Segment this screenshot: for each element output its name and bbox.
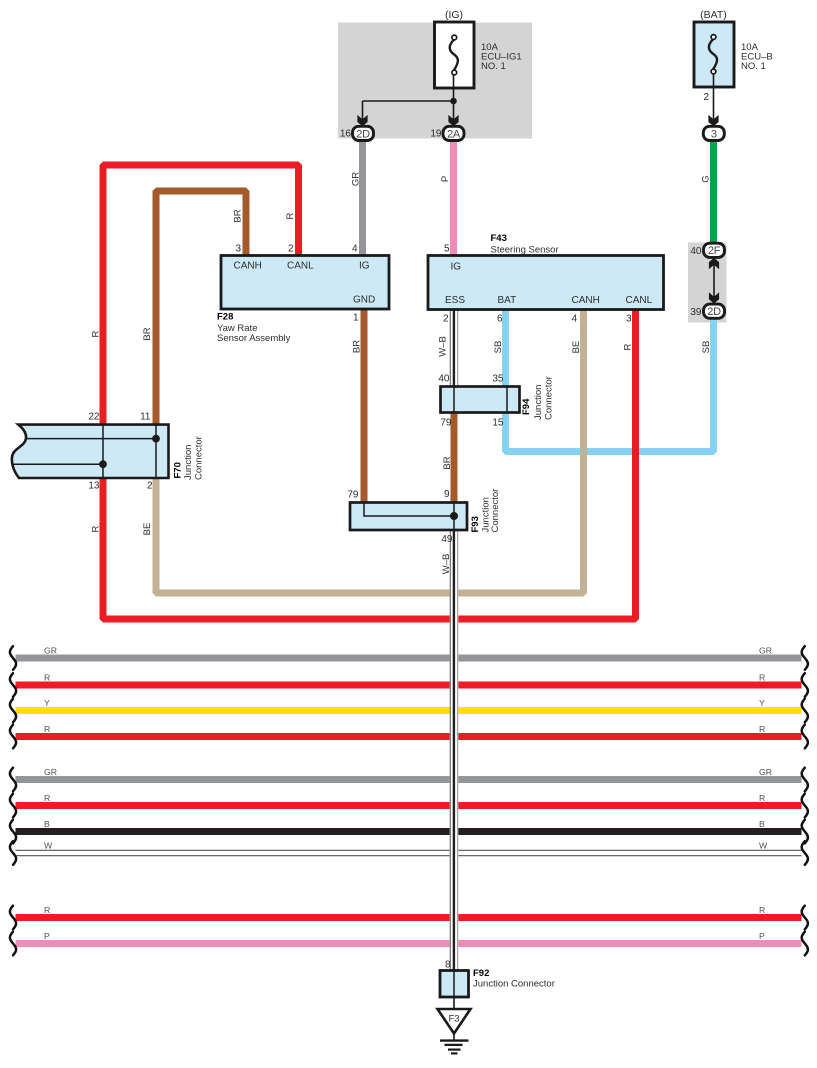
svg-text:GR: GR (351, 172, 362, 186)
svg-text:F94: F94 (521, 398, 532, 415)
svg-text:Y: Y (44, 698, 50, 708)
svg-text:Junction: Junction (533, 385, 544, 420)
bus Y end-break symbols and labels (10, 699, 16, 723)
svg-text:CANH: CANH (234, 261, 262, 272)
svg-text:F92: F92 (473, 968, 489, 979)
svg-text:R: R (44, 793, 50, 803)
svg-text:BE: BE (571, 341, 582, 354)
svg-text:F70: F70 (173, 462, 184, 478)
arrow into connector 2D (357, 115, 367, 126)
svg-text:GR: GR (759, 645, 772, 655)
svg-text:R: R (44, 724, 50, 734)
wire W-B: F43 ESS pin2 -> F94 pin40 (450, 308, 459, 388)
svg-text:2: 2 (288, 244, 294, 255)
F70 internal pass-through wires and taps (102, 425, 104, 479)
component F28 Yaw Rate Sensor Assembly box (221, 256, 389, 310)
svg-text:R: R (91, 330, 102, 337)
svg-text:79: 79 (440, 418, 452, 429)
bus W end-break symbols and labels (10, 841, 16, 865)
component F43 Steering Sensor box (428, 256, 664, 310)
svg-text:2: 2 (703, 92, 709, 103)
svg-text:BAT: BAT (498, 295, 517, 306)
svg-text:F3: F3 (449, 1013, 460, 1024)
bus wire R y=736.5 (16, 733, 802, 740)
wire: CAN-L red loop F28 pin2 -> left side -> bottom -> F43 pin3 (R) (103, 165, 636, 619)
svg-text:BR: BR (142, 327, 153, 340)
svg-text:GR: GR (44, 767, 57, 777)
bus wire R y=805.5 (16, 802, 802, 809)
svg-text:Connector: Connector (194, 436, 205, 480)
svg-text:3: 3 (711, 128, 717, 140)
svg-text:SB: SB (493, 341, 504, 354)
wire: F92 to ground point (453, 997, 455, 1009)
svg-text:2: 2 (147, 481, 153, 492)
junction connector F92 box (440, 971, 469, 998)
wire: SB from connector 2D pin39 -> F94 -> F43 BAT pin6 (506, 308, 714, 452)
svg-text:R: R (759, 793, 765, 803)
svg-text:Y: Y (759, 698, 765, 708)
svg-text:W–B: W–B (441, 554, 452, 575)
svg-text:B: B (759, 819, 765, 829)
wire: G green from oval 3 -> connector 2F pin40 (710, 139, 717, 244)
svg-text:R: R (44, 672, 50, 682)
svg-text:40: 40 (438, 374, 450, 385)
svg-text:CANH: CANH (572, 295, 600, 306)
svg-text:R: R (759, 724, 765, 734)
junction connector F94 box (441, 387, 520, 413)
bus R end-break symbols and labels (10, 794, 16, 818)
wire: fuse output to branch node (453, 75, 455, 120)
bus wire B y=831.5 (16, 828, 802, 835)
arrow into connector 2A (448, 115, 458, 126)
svg-text:B: B (44, 819, 50, 829)
connector oval 2D pin39 (704, 304, 725, 318)
svg-text:4: 4 (571, 314, 577, 325)
svg-text:SB: SB (701, 341, 712, 354)
fuse 10A ECU-IG1 NO.1 (435, 22, 475, 88)
svg-text:Connector: Connector (490, 489, 501, 533)
double-headed arrow 2F to 2D (713, 259, 715, 303)
bus B end-break symbols and labels (10, 820, 16, 844)
wire: fuse to oval 3 (713, 74, 715, 120)
svg-text:G: G (701, 175, 712, 182)
connector oval 2A pin19 (443, 126, 464, 140)
connector oval 3 (703, 126, 724, 140)
svg-text:49: 49 (441, 534, 453, 545)
svg-text:CANL: CANL (287, 261, 314, 272)
svg-text:BR: BR (442, 456, 453, 469)
svg-text:R: R (759, 905, 765, 915)
svg-text:4: 4 (352, 244, 358, 255)
svg-text:2D: 2D (356, 128, 370, 140)
svg-text:ESS: ESS (445, 295, 465, 306)
svg-text:W: W (44, 840, 53, 850)
svg-text:39: 39 (690, 307, 702, 318)
svg-text:BR: BR (233, 209, 244, 222)
svg-text:6: 6 (497, 314, 503, 325)
bus GR end-break symbols and labels (10, 646, 16, 670)
svg-text:Steering Sensor: Steering Sensor (491, 245, 559, 256)
svg-text:W: W (759, 840, 768, 850)
bus wire Y y=710.5 (16, 707, 802, 714)
bus wire R y=685.0 (16, 682, 802, 689)
bus GR end-break symbols and labels (10, 768, 16, 792)
shaded relay-block panel (IG fuse area) (338, 23, 532, 139)
wire W-B: F93 pin49 -> F92 pin8 (crosses bus wires) (450, 529, 459, 971)
F70 junction dot pin11 line (152, 435, 160, 443)
svg-text:W–B: W–B (438, 336, 449, 357)
junction connector F93 box (350, 503, 467, 531)
bus wire GR y=779.5 (16, 776, 802, 783)
connector oval 2D pin16 (353, 126, 374, 140)
svg-text:GND: GND (353, 295, 375, 306)
svg-text:R: R (623, 343, 634, 350)
svg-text:13: 13 (88, 481, 100, 492)
svg-text:F28: F28 (217, 312, 233, 323)
svg-text:BR: BR (352, 340, 363, 353)
svg-text:P: P (440, 176, 451, 182)
svg-text:NO. 1: NO. 1 (741, 61, 766, 72)
svg-text:15: 15 (492, 418, 504, 429)
svg-text:2: 2 (443, 314, 449, 325)
svg-text:P: P (759, 931, 765, 941)
svg-text:(BAT): (BAT) (700, 9, 727, 21)
F92 internal pass-through wire (453, 971, 455, 998)
svg-text:3: 3 (626, 314, 632, 325)
bus wire W (white) y=853 (16, 850, 802, 857)
wire: CAN-H beige F70 pin2 -> F43 pin4 (BE) (156, 308, 584, 593)
svg-text:2A: 2A (447, 128, 461, 140)
bus R end-break symbols and labels (10, 725, 16, 749)
F93 internal wiring: pin79 joins pin9/pin49 line (364, 503, 454, 531)
svg-text:Junction: Junction (183, 445, 194, 480)
svg-text:8: 8 (445, 960, 451, 971)
svg-text:16: 16 (340, 128, 352, 139)
svg-text:Connector: Connector (544, 376, 555, 420)
svg-text:GR: GR (759, 767, 772, 777)
wire: P pink from connector 2A pin19 -> F43 IG pin5 (450, 139, 457, 257)
ground point F3 triangle (438, 1009, 471, 1034)
svg-text:CANL: CANL (626, 295, 653, 306)
svg-text:R: R (285, 212, 296, 219)
svg-text:5: 5 (444, 244, 450, 255)
wire: BR from F28 GND pin1 -> F93 pin79 (361, 307, 368, 504)
svg-text:IG: IG (359, 261, 370, 272)
svg-text:3: 3 (235, 244, 241, 255)
wire: CAN-H brown F28 pin3 -> F70 pin11 (BR) (156, 191, 246, 426)
svg-text:2F: 2F (708, 245, 721, 257)
svg-text:22: 22 (88, 412, 100, 423)
svg-text:35: 35 (492, 374, 504, 385)
connector oval 2F pin40 (704, 243, 725, 257)
F93 junction dot (450, 512, 458, 520)
bus wire R y=917.5 (16, 914, 802, 921)
svg-text:2D: 2D (707, 306, 721, 318)
svg-text:R: R (44, 905, 50, 915)
wire overlap: BE vertical over SB horizontal (580, 440, 587, 462)
svg-text:Junction Connector: Junction Connector (473, 979, 555, 990)
F70 junction dot pin22 line (99, 460, 107, 468)
wire overlap: R vertical over SB horizontal (632, 440, 639, 462)
wire: GR from connector 2D pin16 -> F28 IG pin4 (359, 139, 366, 257)
svg-text:F43: F43 (491, 233, 507, 244)
junction node dot below IG fuse (450, 98, 457, 105)
svg-text:19: 19 (430, 128, 442, 139)
svg-text:9: 9 (444, 489, 450, 500)
svg-text:P: P (44, 931, 50, 941)
F94 internal pass-through wires (453, 387, 455, 413)
svg-text:40: 40 (690, 246, 702, 257)
fuse 10A ECU-B NO.1 (694, 22, 734, 87)
svg-text:(IG): (IG) (445, 9, 463, 21)
bus wire GR y=658.0 (16, 655, 802, 662)
arrow into oval 3 (708, 115, 718, 126)
svg-text:R: R (759, 672, 765, 682)
svg-text:BE: BE (142, 523, 153, 536)
svg-text:NO. 1: NO. 1 (481, 61, 506, 72)
bus R end-break symbols and labels (10, 673, 16, 697)
bus P end-break symbols and labels (10, 932, 16, 956)
wire: BR from F94 pin79 -> F93 pin9 (451, 411, 458, 504)
svg-text:GR: GR (44, 645, 57, 655)
svg-text:F93: F93 (470, 516, 481, 532)
bus R end-break symbols and labels (10, 906, 16, 930)
junction connector F70 box (torn left edge) (12, 425, 169, 478)
svg-text:Sensor Assembly: Sensor Assembly (217, 333, 291, 344)
svg-text:79: 79 (347, 490, 359, 501)
bus wire P y=943.5 (16, 940, 802, 947)
svg-text:11: 11 (140, 412, 151, 423)
shaded panel (2F/2D junction, right side) (688, 243, 727, 323)
svg-text:IG: IG (451, 262, 462, 273)
svg-text:1: 1 (353, 313, 359, 324)
svg-text:R: R (91, 525, 102, 532)
ground symbol bars (453, 1034, 455, 1041)
